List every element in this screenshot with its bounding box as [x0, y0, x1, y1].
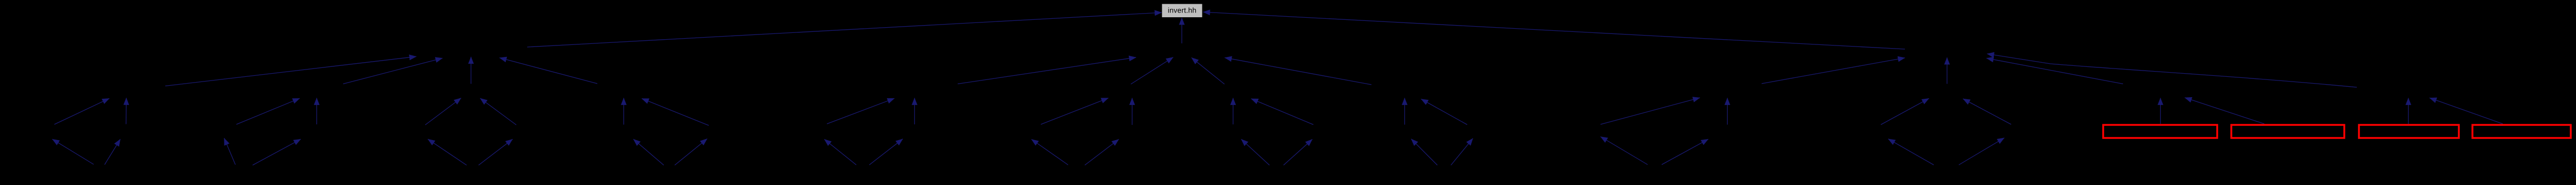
- edge g8-r3L to g8-r2: [1404, 98, 1405, 124]
- edge g8-r4 to g8-r3L: [1411, 139, 1437, 165]
- edge g1-r4 to g1-r3L: [52, 139, 94, 164]
- red node box 3 (truncated): [2359, 125, 2459, 138]
- edge g3-r2 to node-B: [471, 57, 472, 84]
- edge g9-r4 to g9-r3L: [1601, 137, 1648, 165]
- edge node-C to invert.hh: [1182, 18, 1183, 43]
- edge g7-r3R to g7-r2: [1251, 99, 1313, 125]
- edge redbox3 to R2b: [2408, 98, 2409, 124]
- edge g1-r3L to g1-r2: [54, 98, 109, 124]
- edge g6-r4 to g6-r3L: [1031, 140, 1068, 165]
- edge g4-r3L to g4-r2: [623, 98, 625, 124]
- edge g10-r2 to node-D: [1947, 57, 1948, 84]
- edge g3-r3L to g3-r2: [425, 98, 461, 125]
- edge g5-r3L to g5-r2: [827, 98, 894, 124]
- edge g5-r4 to g5-r3L: [824, 140, 856, 165]
- edge redbox4 to R2b: [2430, 98, 2503, 124]
- edge g3-r3R to g3-r2: [480, 98, 516, 125]
- edge g8-r2 to node-C: [1225, 57, 1372, 85]
- red node box 1 (truncated): [2103, 125, 2217, 138]
- edge g10-r4 to g10-r3L: [1888, 139, 1934, 165]
- edge g1-r3R to g1-r2: [126, 98, 127, 124]
- edge g9-r2 to node-D: [1762, 58, 1905, 84]
- edge g6-r2 to node-C: [1131, 57, 1173, 85]
- edge g9-r3R to g9-r2: [1727, 98, 1728, 124]
- node invert.hh (grey filled box): [1162, 4, 1202, 17]
- edge g10-r4 to g10-r3R: [1959, 138, 2004, 165]
- red node box 4 (truncated): [2472, 125, 2571, 138]
- edge R2b to node-D: [1987, 54, 2357, 87]
- edge g9-r3L to g9-r2: [1601, 98, 1700, 124]
- edge g2-r3L to g2-r2: [236, 98, 300, 124]
- edge g2-r4 to g2-r3R: [253, 139, 301, 165]
- edge g3-r4 to g3-r3R: [479, 139, 513, 165]
- edge node-D to invert.hh: [1203, 12, 1905, 49]
- edge g8-r4 to g8-r3R: [1451, 138, 1473, 165]
- red node box 2 (truncated): [2231, 125, 2344, 138]
- edge g1-r4 to g1-r3R: [105, 139, 120, 165]
- edge g2-r4 to g2-r3L: [224, 138, 236, 165]
- edge g4-r3R to g4-r2: [642, 99, 709, 126]
- edge g5-r2 to node-C: [958, 57, 1136, 84]
- edge g10-r3R to g10-r2: [1963, 99, 2011, 124]
- edge g5-r4 to g5-r3R: [869, 139, 903, 165]
- edge g2-r2 to node-B: [343, 58, 442, 84]
- edge redbox1 to R2a: [2160, 98, 2161, 124]
- edge g6-r3R to g6-r2: [1132, 98, 1133, 125]
- edge g4-r2 to node-B: [500, 58, 597, 84]
- edge g5-r3R to g5-r2: [914, 98, 915, 124]
- edge g1-r2 to node-B: [165, 56, 416, 86]
- edge g6-r3L to g6-r2: [1041, 98, 1108, 124]
- edge g9-r4 to g9-r3R: [1662, 139, 1708, 165]
- edge R2a to node-D: [1987, 58, 2123, 84]
- edge g4-r4 to g4-r3L: [633, 139, 664, 165]
- edge g8-r3R to g8-r2: [1421, 99, 1467, 125]
- edge g7-r3L to g7-r2: [1233, 98, 1234, 124]
- edge g6-r4 to g6-r3R: [1085, 140, 1119, 166]
- edge node-B to invert.hh: [527, 13, 1162, 47]
- edge g2-r3R to g2-r2: [316, 98, 317, 124]
- edge g3-r4 to g3-r3L: [428, 139, 467, 165]
- edge g7-r4 to g7-r3L: [1241, 139, 1269, 165]
- edge g7-r2 to node-C: [1191, 57, 1224, 84]
- edge g4-r4 to g4-r3R: [675, 139, 707, 166]
- edge g7-r4 to g7-r3R: [1284, 140, 1312, 166]
- edge g10-r3L to g10-r2: [1881, 98, 1929, 124]
- edge redbox2 to R2a: [2185, 98, 2264, 124]
